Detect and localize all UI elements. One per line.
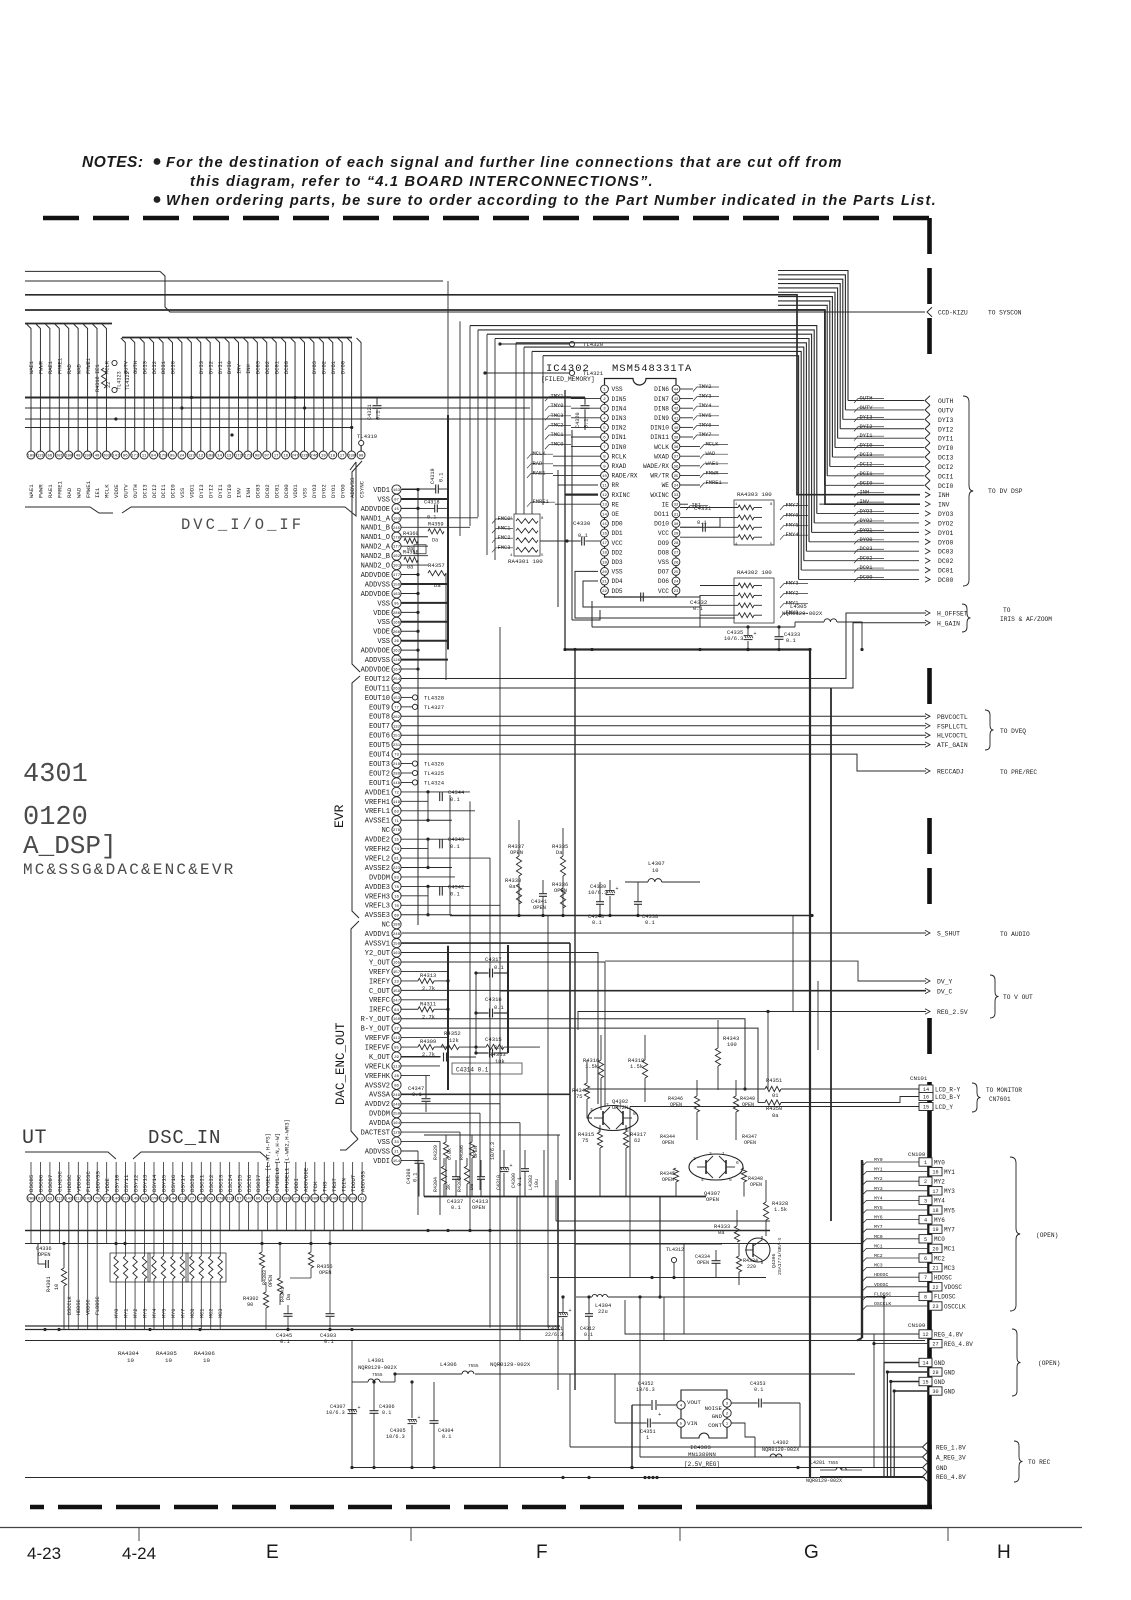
svg-text:2: 2 (924, 1179, 927, 1185)
svg-text:NAND2_B: NAND2_B (361, 553, 390, 561)
svg-text:0.1: 0.1 (280, 1339, 290, 1345)
svg-text:TMY5: TMY5 (699, 413, 712, 419)
capacitor C4303 0.1 (320, 1230, 336, 1345)
wire CCD-KIZU run (160, 271, 925, 312)
svg-text:0.1: 0.1 (517, 1177, 523, 1186)
svg-text:C4308: C4308 (406, 1168, 412, 1184)
resistor R4346 OPEN (668, 1080, 700, 1140)
svg-text:MC0: MC0 (874, 1234, 883, 1240)
resistor R4344 OPEN (660, 1134, 675, 1146)
svg-text:NAND2_O: NAND2_O (361, 563, 390, 571)
svg-text:FMY2: FMY2 (786, 590, 799, 596)
capacitor C4312 0.1 (580, 1295, 595, 1340)
svg-text:MY0: MY0 (934, 1159, 945, 1166)
svg-text:C_OUT: C_OUT (369, 988, 390, 996)
inductor L4201 NQR0129-002X (806, 1460, 862, 1484)
power strap rail x=418 with junction dots (401, 488, 420, 925)
svg-text:RA4306: RA4306 (194, 1350, 215, 1357)
svg-text:81: 81 (394, 858, 399, 862)
svg-text:98: 98 (255, 455, 260, 459)
svg-text:EOUT12: EOUT12 (365, 676, 390, 684)
svg-text:DC02: DC02 (938, 558, 954, 565)
svg-text:128: 128 (393, 1132, 401, 1136)
svg-text:15: 15 (394, 839, 399, 843)
capacitor C4351 1 (615, 1374, 677, 1441)
svg-text:11: 11 (142, 455, 147, 459)
svg-text:7555: 7555 (372, 1373, 383, 1378)
svg-text:MCLK: MCLK (104, 484, 111, 498)
svg-text:0.1: 0.1 (376, 411, 382, 420)
svg-text:FMC3: FMC3 (498, 545, 511, 551)
svg-text:AVSSA: AVSSA (369, 1092, 391, 1100)
svg-text:FMC1: FMC1 (498, 526, 511, 532)
svg-text:A_REG_3V: A_REG_3V (936, 1455, 966, 1462)
svg-text:FMY7: FMY7 (786, 503, 799, 509)
svg-text:147: 147 (245, 1198, 253, 1202)
svg-text:DVDDM: DVDDM (369, 1111, 390, 1119)
svg-text:125: 125 (37, 455, 45, 459)
svg-text:MY6: MY6 (934, 1217, 945, 1224)
resistor R4304 3k (433, 1158, 452, 1197)
capacitor C4333 0.1 (775, 627, 801, 650)
svg-text:MC1: MC1 (874, 1243, 883, 1249)
svg-text:41: 41 (674, 417, 679, 421)
svg-text:273: 273 (292, 1198, 300, 1202)
resistor R4349 OPEN (733, 1080, 755, 1140)
svg-text:WADE/RX: WADE/RX (643, 463, 669, 470)
capacitor C4317 0.1 (474, 945, 508, 1053)
svg-text:185: 185 (283, 1198, 291, 1202)
svg-text:DC02: DC02 (860, 556, 873, 562)
svg-text:FWWR: FWWR (38, 484, 45, 498)
resistor R4347 OPEN (742, 1134, 757, 1146)
svg-text:10: 10 (652, 868, 658, 874)
svg-text:MY1: MY1 (874, 1167, 883, 1173)
svg-text:TL4328: TL4328 (424, 694, 444, 701)
svg-text:HDOSC: HDOSC (934, 1275, 952, 1282)
wire DCI3 to DV DSP (832, 456, 924, 458)
long vertical wires center (460, 390, 884, 1468)
svg-text:66: 66 (208, 1198, 213, 1202)
svg-text:DO7: DO7 (658, 569, 669, 576)
wire DYO1 to DV DSP (812, 531, 919, 533)
RA network value labels (118, 1350, 215, 1364)
svg-text:12: 12 (198, 455, 203, 459)
svg-text:Q4306: Q4306 (771, 1253, 777, 1268)
svg-text:0.1: 0.1 (450, 891, 460, 897)
svg-text:0.1: 0.1 (450, 844, 460, 850)
svg-text:TMC1: TMC1 (551, 432, 564, 438)
svg-text:209: 209 (27, 1198, 35, 1202)
svg-text:143: 143 (65, 1198, 73, 1202)
svg-text:VCC: VCC (658, 588, 669, 595)
svg-text:DD0: DD0 (612, 521, 623, 528)
svg-text:VDDI: VDDI (373, 1158, 390, 1166)
svg-text:23: 23 (394, 980, 399, 984)
output RECCADJ (925, 768, 1037, 776)
IC4302 right tags TMY2..TMY7 (680, 384, 719, 440)
svg-text:34: 34 (674, 485, 679, 489)
svg-text:DYI1: DYI1 (938, 436, 954, 443)
brace CN109 lower OPEN (1012, 1329, 1060, 1396)
resistor network RA4304 (110, 1230, 150, 1330)
svg-text:VCC: VCC (658, 530, 669, 537)
svg-text:31: 31 (674, 513, 679, 517)
capacitor C4334 OPEN (695, 1250, 721, 1278)
notes text (82, 154, 937, 209)
inductor L4301 NQR0129-002X (352, 1341, 398, 1468)
svg-text:VREFH3: VREFH3 (365, 893, 390, 901)
DVC_I/O_IF pin fan: bus entries (25, 324, 361, 452)
svg-text:R4357: R4357 (428, 562, 445, 569)
output S_SHUT (402, 930, 1030, 938)
svg-text:EOUT11: EOUT11 (365, 685, 390, 693)
svg-text:ADDVDDE: ADDVDDE (303, 1167, 310, 1192)
resistor R4328 1.5k (763, 1180, 788, 1236)
svg-text:WAD: WAD (75, 487, 82, 498)
svg-text:163: 163 (393, 593, 401, 597)
svg-text:10/6.3: 10/6.3 (490, 1142, 496, 1160)
svg-text:DC03: DC03 (256, 361, 262, 374)
resistor R4318 1.5k (628, 1035, 648, 1102)
resistor R4335 0ohm (552, 828, 568, 915)
resistor R4360 (403, 531, 426, 554)
svg-text:29: 29 (674, 533, 679, 537)
svg-text:01: 01 (772, 1093, 778, 1099)
svg-text:ADDVSS: ADDVSS (365, 657, 390, 665)
svg-text:VDOSC: VDOSC (944, 1284, 962, 1291)
svg-text:DYO2: DYO2 (938, 520, 954, 527)
svg-text:38: 38 (674, 446, 679, 450)
resistor R4334 220 (736, 1244, 758, 1285)
svg-text:EOUT10: EOUT10 (365, 695, 390, 703)
svg-text:DCI2: DCI2 (152, 361, 158, 374)
svg-text:ADDVSS: ADDVSS (359, 1171, 366, 1192)
svg-text:62: 62 (634, 1138, 640, 1144)
svg-text:16: 16 (283, 455, 288, 459)
svg-text:OE: OE (612, 511, 620, 518)
svg-text:0.1: 0.1 (439, 473, 445, 482)
svg-text:R4352: R4352 (444, 1030, 461, 1037)
svg-text:MY7: MY7 (874, 1224, 883, 1230)
brace TO MONITOR (972, 1083, 1022, 1112)
wire EOUT4 to RECCADJ (401, 754, 927, 771)
svg-text:148: 148 (393, 782, 401, 786)
output REG_4.8V bottom (820, 1472, 966, 1482)
resistor network RA4302 100 (700, 569, 774, 623)
svg-text:MY6: MY6 (874, 1215, 883, 1221)
svg-text:VREFL3: VREFL3 (365, 903, 390, 911)
svg-text:R4311: R4311 (420, 1001, 436, 1007)
transistor Q4306 2SA1774 (745, 1236, 783, 1275)
svg-text:EVR: EVR (332, 804, 347, 828)
capacitor C4306 0.1 (370, 1380, 395, 1467)
svg-text:17: 17 (340, 455, 345, 459)
svg-text:RAD: RAD (67, 364, 73, 374)
inductor L4304 22u (576, 1294, 886, 1315)
svg-text:5: 5 (729, 1177, 732, 1183)
svg-text:C4316: C4316 (485, 996, 502, 1003)
svg-text:11: 11 (602, 485, 607, 489)
svg-text:MY3: MY3 (874, 1186, 883, 1192)
svg-text:1: 1 (924, 1160, 927, 1166)
svg-text:70: 70 (95, 1198, 100, 1202)
svg-text:OPEN: OPEN (473, 1146, 479, 1158)
svg-text:246: 246 (393, 1103, 401, 1107)
svg-text:VSS: VSS (377, 1139, 390, 1147)
capacitor C4332 0.1 (630, 593, 708, 613)
svg-text:27: 27 (674, 552, 679, 556)
svg-text:DYO0: DYO0 (340, 361, 346, 374)
svg-text:C4321: C4321 (367, 404, 373, 420)
svg-text:DYO2: DYO2 (321, 484, 328, 498)
svg-text:158: 158 (393, 943, 401, 947)
svg-text:21: 21 (602, 581, 607, 585)
svg-text:MY2: MY2 (934, 1179, 945, 1186)
svg-text:22/6.3: 22/6.3 (545, 1332, 563, 1338)
svg-text:TMC3: TMC3 (551, 413, 564, 419)
svg-text:127: 127 (188, 455, 196, 459)
svg-text:VSS: VSS (179, 487, 186, 498)
svg-text:VREFL2: VREFL2 (365, 855, 390, 863)
svg-text:4-23: 4-23 (27, 1544, 61, 1563)
svg-text:MC1: MC1 (199, 1309, 205, 1318)
svg-text:G: G (804, 1542, 819, 1563)
svg-text:DSC07: DSC07 (47, 1174, 54, 1192)
svg-text:218: 218 (393, 763, 401, 767)
svg-text:MY0: MY0 (114, 1309, 120, 1318)
capacitor C4307 10/6.3 (326, 1404, 361, 1467)
connector CN109 upper (908, 1151, 966, 1310)
svg-text:RXINC: RXINC (612, 492, 631, 499)
svg-text:C4332: C4332 (690, 599, 708, 606)
svg-text:30: 30 (674, 523, 679, 527)
svg-text:DD5: DD5 (612, 588, 623, 595)
svg-text:278: 278 (217, 1198, 225, 1202)
svg-text:DSCI5: DSCI5 (236, 1174, 243, 1192)
svg-text:160: 160 (393, 1018, 401, 1022)
svg-text:C4319: C4319 (430, 468, 436, 484)
svg-text:DYO1: DYO1 (330, 484, 337, 498)
test point TL4324 (401, 779, 445, 786)
svg-text:WAE1: WAE1 (29, 361, 35, 374)
svg-text:MY5: MY5 (944, 1207, 955, 1214)
svg-text:212: 212 (75, 1198, 83, 1202)
svg-text:C4331: C4331 (694, 505, 712, 512)
svg-text:MY5: MY5 (874, 1205, 883, 1211)
svg-text:3: 3 (590, 1107, 593, 1113)
svg-text:179: 179 (159, 455, 167, 459)
svg-text:206: 206 (311, 1198, 319, 1202)
output GND bottom (862, 1463, 947, 1473)
svg-text:MC0: MC0 (190, 1309, 196, 1318)
svg-text:EOUT6: EOUT6 (369, 733, 390, 741)
svg-text:238: 238 (348, 455, 356, 459)
svg-text:EOUT5: EOUT5 (369, 742, 390, 750)
capacitor C4319 0.1 (402, 281, 448, 494)
wire DCI0 to DV DSP (825, 484, 924, 486)
svg-text:A_DSP]: A_DSP] (23, 831, 117, 861)
svg-text:R4313: R4313 (420, 973, 436, 979)
svg-text:EOUT2: EOUT2 (369, 770, 390, 778)
svg-text:70: 70 (394, 905, 399, 909)
svg-text:AVDDV1: AVDDV1 (365, 931, 390, 939)
svg-text:1.5k: 1.5k (630, 1064, 643, 1070)
svg-text:GND: GND (944, 1388, 955, 1395)
svg-text:17: 17 (274, 455, 279, 459)
capacitor C4339 10/6.3 (588, 880, 619, 915)
svg-text:DO11: DO11 (654, 511, 669, 518)
svg-text:DV_C: DV_C (937, 989, 953, 996)
svg-text:DYO0: DYO0 (339, 484, 346, 498)
svg-text:TRST: TRST (331, 1178, 338, 1192)
svg-text:216: 216 (226, 1198, 234, 1202)
svg-text:215: 215 (122, 1198, 130, 1202)
svg-text:10: 10 (203, 1357, 210, 1364)
svg-text:TL4326: TL4326 (424, 761, 444, 768)
svg-text:MY4: MY4 (874, 1195, 883, 1201)
svg-text:7555: 7555 (828, 1462, 839, 1466)
svg-text:DYI0: DYI0 (226, 484, 233, 498)
wire EOUT6 to HLVCOCTL (401, 734, 927, 736)
svg-text:IE1: IE1 (94, 487, 101, 498)
capacitor C4337 0.1 (447, 1160, 463, 1211)
bottom supply rail (25, 1468, 925, 1478)
svg-text:16: 16 (932, 1170, 938, 1176)
svg-text:CN101: CN101 (910, 1075, 928, 1082)
IC4301 body top edge under DVC pins (25, 462, 356, 516)
svg-text:When ordering parts, be sure t: When ordering parts, be sure to order ac… (166, 193, 937, 209)
svg-text:13: 13 (602, 504, 607, 508)
svg-text:TL4325: TL4325 (424, 770, 444, 777)
svg-text:TVSEL [L-NT,H-PS]: TVSEL [L-NT,H-PS] (265, 1133, 272, 1192)
output H_OFFSET (925, 610, 930, 616)
svg-text:TO DV DSP: TO DV DSP (988, 488, 1023, 495)
svg-text:20: 20 (932, 1246, 938, 1252)
svg-text:INV: INV (236, 487, 243, 498)
capacitor C4341 OPEN (531, 880, 547, 915)
svg-text:OPEN: OPEN (742, 1102, 754, 1108)
svg-text:21: 21 (394, 1151, 399, 1155)
svg-text:EOUT8: EOUT8 (369, 714, 390, 722)
svg-text:OPEN: OPEN (744, 1140, 756, 1146)
svg-text:DO8: DO8 (658, 549, 669, 556)
svg-text:B-Y_OUT: B-Y_OUT (361, 1026, 390, 1034)
svg-text:DC00: DC00 (860, 574, 873, 580)
svg-text:246: 246 (310, 455, 318, 459)
DVC_I/O_IF lower pin name labels (28, 477, 365, 498)
svg-text:286: 286 (393, 773, 401, 777)
svg-text:OPEN: OPEN (533, 905, 546, 911)
capacitor C4345 0.1 (276, 1305, 293, 1345)
svg-text:TO SYSCON: TO SYSCON (988, 310, 1022, 317)
svg-text:14: 14 (602, 513, 607, 517)
svg-text:15: 15 (922, 1380, 928, 1386)
svg-text:DYI0: DYI0 (938, 445, 954, 452)
DSC pin fan wires (31, 1162, 362, 1194)
svg-text:IC4302: IC4302 (546, 363, 590, 375)
test point TL4312 (666, 1247, 684, 1278)
brace TO V OUT (990, 975, 1033, 1018)
resistor R4311 2.7k (401, 1000, 450, 1020)
svg-text:VDDE: VDDE (104, 1178, 111, 1192)
svg-text:DD1: DD1 (612, 530, 623, 537)
svg-text:163: 163 (393, 952, 401, 956)
svg-text:MC3: MC3 (944, 1265, 955, 1272)
svg-text:R-Y_OUT: R-Y_OUT (361, 1016, 390, 1024)
svg-text:DC02: DC02 (264, 484, 271, 498)
output PBVCOCTL (925, 714, 930, 720)
wire DCI1 to DV DSP (827, 475, 924, 477)
dashed border bottom (740, 1505, 932, 1510)
svg-text:35: 35 (674, 475, 679, 479)
svg-text:VSS: VSS (377, 496, 390, 504)
svg-text:2.7k: 2.7k (422, 1014, 435, 1020)
resistor network RA4305 (148, 1230, 188, 1330)
svg-text:10: 10 (602, 475, 607, 479)
svg-text:67: 67 (237, 1198, 242, 1202)
DV DSP signal rows with tags and chevrons (799, 396, 954, 584)
svg-text:DIN2: DIN2 (612, 425, 627, 432)
svg-text:40: 40 (674, 427, 679, 431)
svg-text:14: 14 (217, 455, 222, 459)
IC4303 MN1389NN body (681, 1390, 727, 1468)
svg-text:263: 263 (393, 687, 401, 691)
svg-text:2: 2 (709, 1151, 712, 1157)
svg-text:166: 166 (393, 621, 401, 625)
svg-text:L4305: L4305 (790, 603, 807, 610)
IC4301 right pin column circles (392, 485, 401, 1165)
capacitor C4335 10/6.3 (724, 627, 757, 651)
svg-text:LCD_Y: LCD_Y (935, 1104, 953, 1111)
svg-text:0a: 0a (407, 565, 413, 571)
svg-text:44: 44 (674, 389, 679, 393)
svg-text:0.1: 0.1 (382, 1410, 391, 1416)
svg-text:DSY17: DSY17 (180, 1174, 187, 1192)
svg-text:E: E (266, 1542, 279, 1563)
svg-text:DO6: DO6 (658, 578, 669, 585)
svg-text:10: 10 (165, 1357, 172, 1364)
svg-text:DYO3: DYO3 (312, 361, 318, 374)
svg-text:DYI2: DYI2 (207, 484, 214, 498)
svg-text:VDD1: VDD1 (373, 487, 390, 495)
svg-text:14: 14 (922, 1361, 928, 1367)
svg-text:DCI0: DCI0 (860, 480, 873, 486)
brace TO DV DSP (963, 396, 1023, 586)
svg-text:63: 63 (394, 810, 399, 814)
svg-text:INH: INH (245, 488, 252, 498)
svg-text:DSCI0: DSCI0 (189, 1174, 196, 1192)
svg-text:DC01: DC01 (860, 565, 873, 571)
svg-text:OUTV: OUTV (123, 484, 130, 498)
svg-text:71: 71 (394, 820, 399, 824)
svg-text:VDDE: VDDE (113, 484, 120, 498)
thick wire bundle from DVC fan to DV DSP rows (778, 271, 848, 486)
svg-text:72: 72 (394, 791, 399, 795)
svg-text:0.1: 0.1 (584, 419, 590, 428)
DVC_I/O_IF upper signal labels (29, 358, 346, 374)
svg-text:FMRE1: FMRE1 (57, 358, 63, 374)
svg-text:DCI1: DCI1 (938, 473, 954, 480)
wires lower middle (352, 1180, 770, 1390)
resistor R4333 0ohm (714, 1210, 740, 1242)
svg-text:78: 78 (394, 886, 399, 890)
svg-text:CPUSELO [L-N,H-W]: CPUSELO [L-N,H-W] (274, 1133, 281, 1192)
svg-text:VSS: VSS (658, 559, 669, 566)
svg-text:26: 26 (674, 561, 679, 565)
output FSPLLCTL (925, 723, 930, 729)
test point TL4328 (401, 694, 445, 701)
